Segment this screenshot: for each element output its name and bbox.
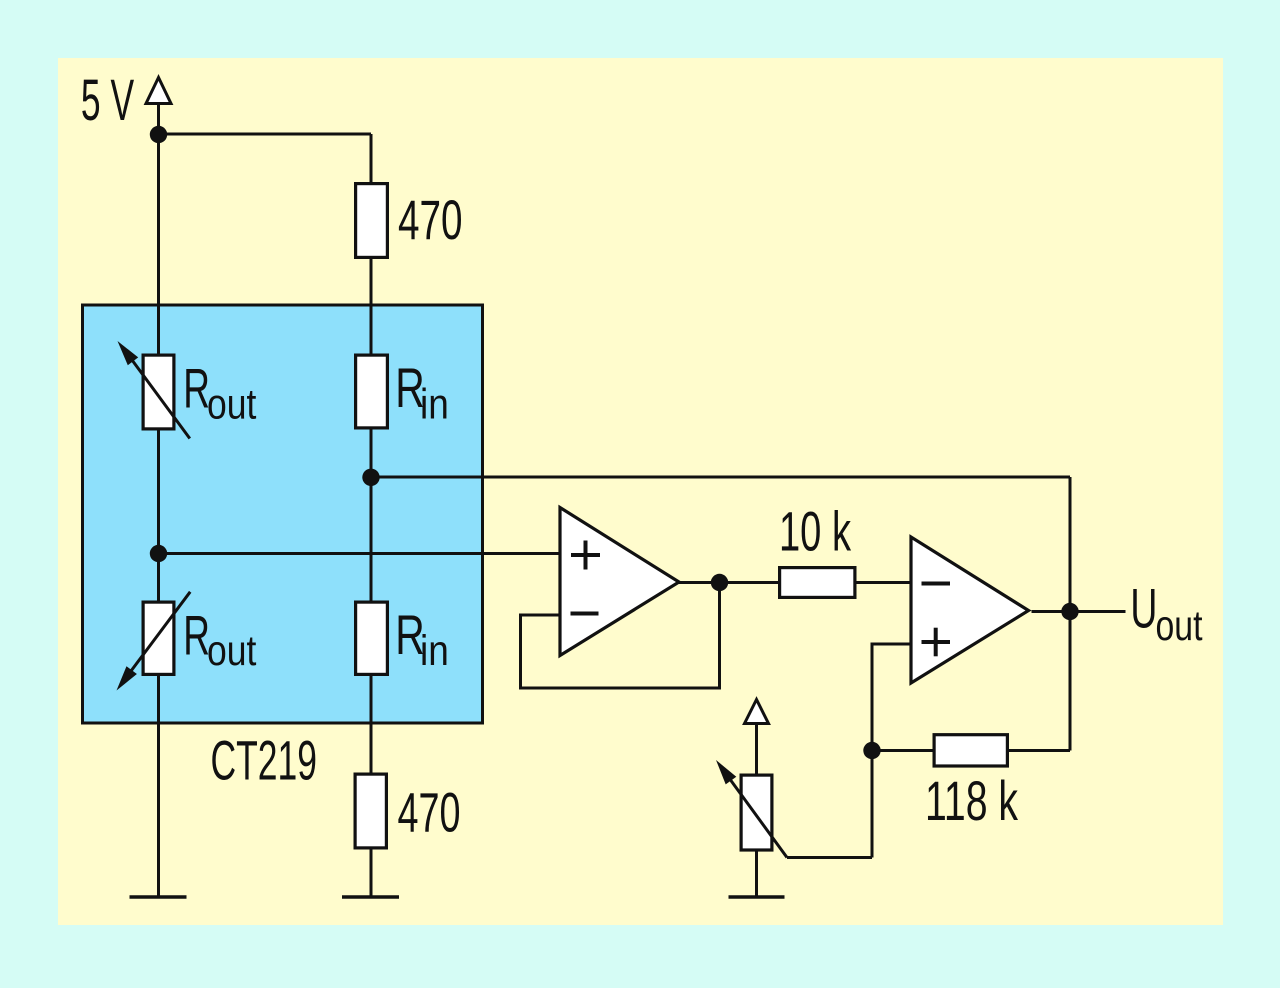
junction node bridge left xyxy=(150,545,167,562)
U1 minus sign xyxy=(571,612,599,616)
wire: pot wiper rail up to U2 + input xyxy=(872,644,911,858)
ground pot xyxy=(729,895,785,899)
resistor 470 top xyxy=(356,184,388,258)
svg-text:5 V: 5 V xyxy=(81,68,134,133)
svg-text:118 k: 118 k xyxy=(925,769,1019,832)
wire: U2 output to Uout xyxy=(1032,610,1126,613)
wire: left node to op-amp U1 + input xyxy=(159,552,561,555)
resistor 118k xyxy=(934,735,1007,766)
U2 plus sign xyxy=(922,640,951,644)
op-amp U2 xyxy=(911,537,1029,683)
arrow of Rout upper xyxy=(131,359,190,439)
potentiometer P1 xyxy=(741,775,772,850)
svg-text:R: R xyxy=(183,604,210,667)
svg-text:in: in xyxy=(420,380,449,428)
wire: right vertical rail xyxy=(1069,477,1072,751)
junction node feedback xyxy=(863,742,880,759)
svg-text:out: out xyxy=(207,627,256,675)
svg-text:470: 470 xyxy=(398,780,461,843)
ground left xyxy=(130,895,187,899)
resistor Rout lower (variable) xyxy=(143,602,174,674)
svg-text:out: out xyxy=(207,380,256,428)
wire: pot bottom to ground xyxy=(755,850,758,896)
svg-text:CT219: CT219 xyxy=(211,729,318,792)
svg-text:R: R xyxy=(183,357,210,420)
svg-text:470: 470 xyxy=(398,188,463,251)
resistor Rout upper (variable) xyxy=(143,355,174,429)
IC block CT219 xyxy=(83,305,483,723)
wire: pot wiper horizontal xyxy=(787,856,872,859)
svg-text:U: U xyxy=(1130,577,1157,640)
U2 minus sign xyxy=(922,582,951,586)
wire: 10k to U2 - input xyxy=(857,581,912,584)
wire: top horizontal 5V to 470 xyxy=(159,133,372,136)
arrow of potentiometer xyxy=(729,778,787,858)
yellow panel xyxy=(58,58,1223,925)
svg-text:in: in xyxy=(420,627,449,675)
junction node 5V xyxy=(150,126,167,143)
junction node U1 output xyxy=(711,574,728,591)
ground middle xyxy=(342,895,399,899)
U1 plus sign xyxy=(571,553,600,557)
junction node U2 output xyxy=(1061,603,1078,620)
resistor 10k xyxy=(780,568,855,598)
wire: U1 feedback loop xyxy=(521,583,720,689)
supply arrow at pot xyxy=(745,700,769,724)
arrow of Rout lower xyxy=(130,592,191,673)
svg-text:10 k: 10 k xyxy=(779,500,852,563)
resistor Rin upper xyxy=(356,355,388,428)
wire: U1 output to node xyxy=(678,581,778,584)
resistor 470 bottom xyxy=(355,774,386,848)
wire: bridge node to right rail xyxy=(371,476,1070,479)
wire: 5V rail vertical left column xyxy=(157,105,160,896)
wire: pot top supply xyxy=(755,725,758,774)
wire: right column vertical xyxy=(370,134,373,896)
wire: 118k right leg xyxy=(1009,749,1070,752)
svg-text:out: out xyxy=(1156,602,1203,650)
junction node bridge right xyxy=(362,469,379,486)
wire: 118k left leg xyxy=(872,749,933,752)
supply arrow 5V xyxy=(146,78,171,104)
resistor Rin lower xyxy=(356,602,388,674)
op-amp U1 xyxy=(560,508,679,656)
